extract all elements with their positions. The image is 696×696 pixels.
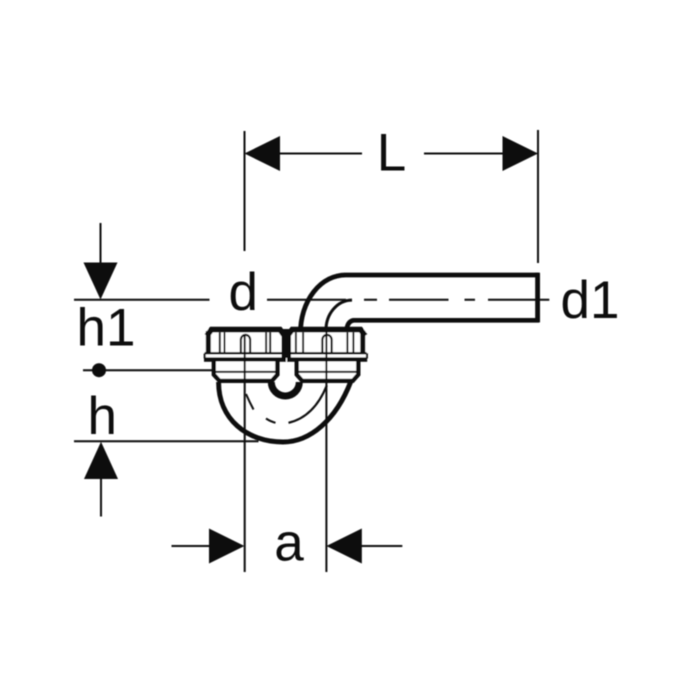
node right nut top band <box>288 330 366 336</box>
node right collar <box>297 362 359 381</box>
node left collar inner line <box>215 371 276 373</box>
node left nut flange bottom <box>204 357 286 361</box>
node right collar inner line <box>298 371 357 373</box>
node right nut flange bottom <box>287 357 367 361</box>
node right port centerline <box>325 326 327 572</box>
svg-text:d1: d1 <box>561 271 620 330</box>
node left nut ribs <box>220 333 270 353</box>
node h1 dim arrow <box>84 263 118 300</box>
node centerline d solid segment <box>267 299 346 301</box>
node h1 top reference line <box>74 299 210 301</box>
node nut bodies white fill <box>204 329 367 361</box>
node h1 dim stem <box>100 223 102 263</box>
node middle arch <box>271 382 299 396</box>
node a dim line left <box>172 545 211 547</box>
wire pipe bottom line <box>347 320 539 328</box>
node left collar <box>214 362 278 381</box>
node L dim left extension <box>244 131 246 251</box>
node L dim line right <box>424 153 537 155</box>
node L dim arrow right <box>503 136 539 171</box>
node centerline dash-dot segments <box>364 299 549 301</box>
node dot reference line <box>83 369 214 371</box>
node bowl inner arc left <box>246 394 254 410</box>
node L dim line left <box>246 153 362 155</box>
svg-text:d: d <box>229 263 258 322</box>
node bowl outer <box>219 382 351 443</box>
node right nut ribs <box>296 333 354 353</box>
node L dim arrow left <box>245 136 281 171</box>
node left nut dome rib <box>241 335 250 353</box>
node a dim arrow right <box>326 529 361 564</box>
node h bottom reference line <box>74 440 259 442</box>
node bowl inner arc right <box>289 386 327 423</box>
node right nut right edge <box>360 331 365 353</box>
node a dim line right <box>361 545 402 547</box>
node left nut left edge <box>206 331 211 353</box>
svg-text:h: h <box>88 387 117 446</box>
svg-text:L: L <box>377 124 406 183</box>
node right nut dome rib <box>322 335 331 353</box>
node left port centerline <box>244 334 246 572</box>
wire pipe outer elbow arc and top line <box>301 275 540 333</box>
node left nut top band <box>207 330 285 336</box>
wire pipe right end <box>535 273 540 323</box>
node bowl inner arc dash <box>266 419 276 423</box>
node flange outer sides <box>205 353 367 358</box>
svg-text:a: a <box>274 514 304 573</box>
node L dim right extension <box>537 130 539 263</box>
node reference dot <box>92 363 106 377</box>
node right nut flange top <box>288 352 367 354</box>
node h dim stem <box>100 478 102 517</box>
svg-text:h1: h1 <box>77 299 136 358</box>
node inter-nut black merge <box>282 329 292 358</box>
node left nut flange top <box>205 352 286 354</box>
node a dim arrow left <box>209 529 244 564</box>
wire pipe inner elbow arc <box>326 300 352 331</box>
node h dim arrow <box>84 442 118 479</box>
